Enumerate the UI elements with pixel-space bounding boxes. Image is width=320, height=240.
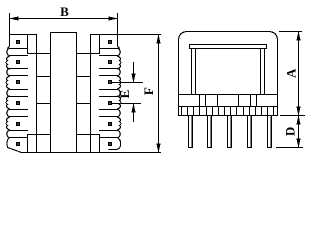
svg-text:F: F bbox=[141, 87, 156, 95]
svg-text:D: D bbox=[283, 127, 298, 136]
svg-text:B: B bbox=[60, 4, 69, 19]
svg-text:E: E bbox=[117, 90, 132, 99]
svg-text:A: A bbox=[283, 68, 298, 78]
